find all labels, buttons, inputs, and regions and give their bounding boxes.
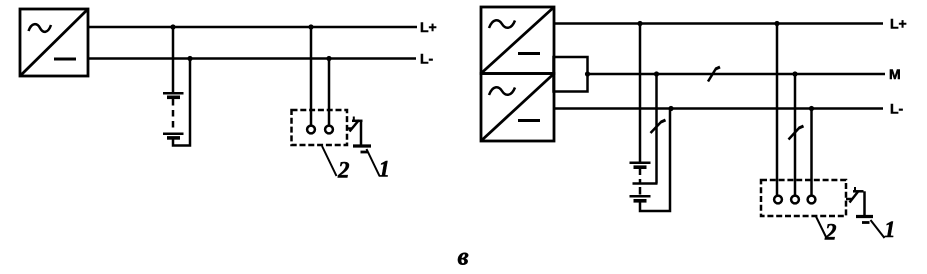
junction dot: load feed on L+ (left): [308, 24, 313, 29]
earthing switch 1 (left): [347, 117, 363, 145]
converter U1 (left AC/DC rectifier box): [20, 9, 88, 76]
svg-text:M: M: [889, 66, 901, 82]
terminal circle (right box, pin on M): [791, 196, 799, 204]
svg-text:L-: L-: [890, 101, 904, 117]
wire: L- drop to terminal box (right): [810, 109, 813, 197]
svg-text:в: в: [458, 244, 469, 271]
svg-text:L-: L-: [420, 50, 434, 66]
terminal circle (left box, pin on L+): [307, 126, 315, 134]
earthing switch 1 (right): [846, 187, 865, 215]
battery GB2 (right storage battery with midpoint tap): [630, 163, 658, 201]
converter U3 (right bottom AC/DC box): [481, 74, 554, 142]
ground (right earth symbol): [856, 217, 873, 223]
junction dot: box feed on L- (right): [809, 106, 814, 111]
wire L+ (right circuit): [554, 22, 883, 25]
junction dot: load feed on L- (left): [326, 56, 331, 61]
terminal circle (right box, pin on L-): [808, 196, 816, 204]
junction dot: midpoint riser on M (right): [654, 71, 659, 76]
battery GB1 (left storage battery, dashed = multiple cells): [163, 93, 184, 138]
midpoint junction box (between converters): [554, 57, 588, 92]
leader line for label 1 (right): [871, 220, 885, 238]
wire: battery midpoint riser to M: [655, 74, 658, 184]
svg-text:1: 1: [379, 157, 391, 182]
wire: battery feed from L+ (right): [639, 24, 642, 162]
terminal box 2 (left, dashed outline): [292, 110, 348, 145]
wire: L+ drop to terminal box (left): [310, 27, 313, 126]
disconnect link on wire M: [708, 67, 720, 82]
svg-text:L+: L+: [890, 15, 907, 31]
junction dot: battery feed on L+ (right): [637, 21, 642, 26]
junction dot: battery return on L- (left): [187, 56, 192, 61]
wire: L+ drop to terminal box (right): [776, 24, 779, 197]
wire: battery feed from L+ (left): [172, 27, 175, 92]
wire L- (right circuit): [554, 107, 883, 110]
terminal circle (right box, pin on L+): [774, 196, 782, 204]
terminal circle (left box, pin on L-): [325, 126, 333, 134]
junction dot: box feed on M (right): [792, 71, 797, 76]
wire L- (left circuit): [88, 57, 416, 60]
svg-text:2: 2: [824, 220, 837, 245]
disconnect link on midpoint riser: [651, 120, 666, 133]
junction dot: battery feed on L+ (left): [170, 24, 175, 29]
wire: battery return to L- (right): [640, 109, 670, 212]
wire: M drop to terminal box (right): [794, 74, 797, 196]
wire: battery return to L- (left): [173, 59, 190, 146]
wire: L- drop to terminal box (left): [328, 59, 331, 127]
leader line for label 1 (left): [367, 149, 380, 176]
terminal box 2 (right, dashed outline): [761, 180, 846, 216]
converter U2 (right top AC/DC box): [481, 7, 554, 74]
junction dot: M at junction box: [585, 71, 590, 76]
wire L+ (left circuit): [88, 26, 417, 29]
svg-text:L+: L+: [420, 19, 437, 35]
junction dot: box feed on L+ (right): [774, 21, 779, 26]
wire M (right circuit mid-wire): [588, 73, 886, 76]
junction dot: battery return on L- (right): [668, 106, 673, 111]
ground (left earth symbol): [353, 146, 371, 152]
svg-text:2: 2: [337, 158, 350, 183]
svg-text:1: 1: [884, 217, 896, 242]
leader line for label 2 (left): [322, 146, 337, 176]
leader line for label 2 (right): [816, 217, 827, 239]
disconnect link on M drop: [789, 126, 804, 140]
